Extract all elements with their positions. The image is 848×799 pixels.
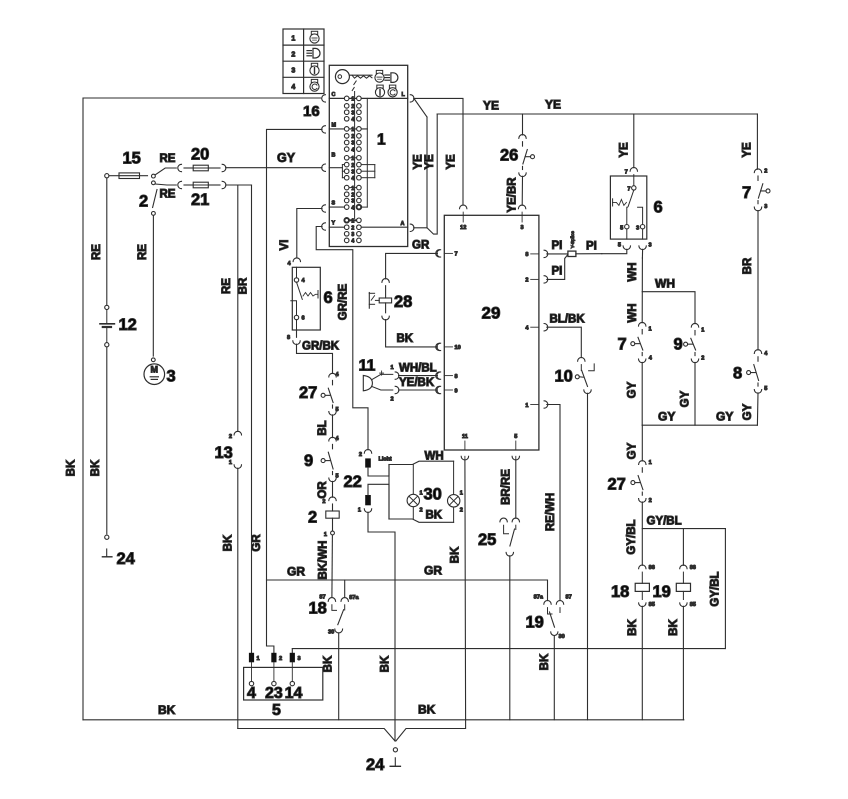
svg-text:2: 2 — [359, 452, 362, 458]
connector arc — [329, 436, 340, 442]
svg-text:GY: GY — [716, 410, 733, 424]
svg-text:28: 28 — [394, 293, 412, 311]
label 16 — [303, 103, 320, 120]
svg-text:30: 30 — [328, 630, 334, 636]
label 9 middle — [674, 336, 683, 354]
svg-text:8: 8 — [455, 374, 458, 380]
wire BK 13 down — [237, 468, 239, 728]
switch 7 middle — [631, 330, 643, 356]
label BK 19-30 — [539, 653, 551, 670]
wire GY/BL down — [641, 502, 643, 565]
svg-text:PI: PI — [586, 241, 597, 253]
wire BK switch10 — [587, 393, 589, 720]
pin 3 of 6 right — [639, 242, 652, 258]
connector arc — [359, 450, 372, 459]
svg-text:RE: RE — [91, 244, 103, 260]
svg-text:2: 2 — [279, 656, 282, 662]
svg-text:BK: BK — [380, 655, 392, 672]
svg-text:4: 4 — [247, 685, 256, 702]
relay contact 18: 30 — [328, 629, 343, 636]
connector arc — [625, 167, 638, 175]
terminal circle — [151, 358, 155, 362]
svg-text:13: 13 — [215, 444, 233, 462]
switch 10 — [575, 358, 594, 394]
svg-text:12: 12 — [119, 316, 137, 334]
wire BK horizontal — [292, 648, 724, 650]
svg-text:GY/BL: GY/BL — [710, 571, 722, 606]
label BK 30 — [323, 655, 335, 672]
wire YE L-A vertical — [426, 117, 428, 228]
svg-text:2: 2 — [322, 499, 325, 505]
label 12 — [119, 316, 137, 334]
svg-text:GR: GR — [412, 240, 430, 252]
svg-text:30: 30 — [559, 634, 565, 640]
svg-text:BR: BR — [742, 257, 754, 274]
svg-text:7: 7 — [625, 169, 628, 175]
ground 24 bottom — [390, 758, 400, 767]
label 22 — [344, 473, 362, 491]
label 6 left — [324, 289, 333, 307]
terminal arcs of key switch — [322, 95, 414, 232]
svg-text:86: 86 — [649, 565, 655, 571]
connector pin 2 — [271, 653, 282, 663]
label YE bus2 — [545, 98, 561, 112]
svg-text:3: 3 — [351, 141, 354, 147]
connector arc — [691, 356, 704, 363]
terminal circle — [105, 305, 109, 309]
headlamps 30 box — [389, 461, 454, 522]
label WH vert1 — [627, 262, 639, 281]
wire YE to switch 6 right — [633, 114, 635, 168]
terminal letters — [332, 92, 406, 227]
svg-text:YE/BR: YE/BR — [507, 177, 519, 213]
svg-text:1: 1 — [257, 656, 260, 662]
svg-text:4: 4 — [351, 239, 354, 245]
wire BK lower bus — [238, 720, 466, 741]
relay contact 19: 30 — [551, 632, 565, 640]
connector pin 3 — [290, 653, 301, 663]
connector arc — [639, 356, 653, 363]
label WH branch — [655, 277, 675, 291]
key switch label 1 — [377, 132, 386, 149]
wire GR/BK — [287, 330, 333, 374]
switch 9 left — [321, 444, 333, 474]
pin 4 right — [525, 324, 547, 332]
label BR vert — [238, 277, 250, 294]
wire BK to pin10 — [386, 320, 441, 351]
label YE right — [742, 142, 754, 158]
svg-text:2: 2 — [525, 278, 528, 284]
capacitor 28 — [369, 286, 391, 313]
wire YE right column — [756, 114, 758, 169]
relay contact 19: 87 — [556, 595, 571, 613]
switch 25 — [500, 518, 520, 556]
svg-text:26: 26 — [500, 147, 518, 165]
svg-text:OR: OR — [317, 481, 329, 499]
pin 5 of 6 right — [602, 242, 631, 253]
label 6 right — [654, 199, 663, 217]
label 2 fuse — [308, 509, 317, 527]
label RE/WH — [545, 493, 557, 531]
svg-text:2: 2 — [351, 163, 354, 169]
svg-text:1: 1 — [701, 328, 704, 334]
svg-text:1: 1 — [649, 460, 652, 466]
svg-text:Y-Splice: Y-Splice — [570, 231, 576, 249]
label GY/BL right — [710, 571, 722, 606]
svg-text:RE/WH: RE/WH — [545, 493, 557, 531]
svg-text:YE: YE — [619, 142, 631, 158]
wire PI pin8 — [547, 253, 568, 255]
switch 26 — [519, 135, 535, 170]
switch contacts group B — [344, 156, 361, 182]
svg-text:2: 2 — [391, 397, 394, 403]
svg-text:4: 4 — [351, 117, 354, 123]
svg-text:GY: GY — [680, 390, 692, 407]
label 24 left — [117, 550, 136, 568]
wire GY bus — [642, 424, 757, 426]
svg-text:11: 11 — [359, 358, 376, 375]
svg-text:87a: 87a — [349, 595, 359, 601]
switch contacts group C — [344, 96, 361, 123]
svg-text:BR: BR — [238, 277, 250, 294]
svg-text:YE: YE — [446, 154, 458, 170]
svg-text:WH: WH — [627, 303, 639, 322]
label BK 13 — [223, 534, 235, 551]
label BK pin11 — [450, 546, 462, 563]
svg-text:B: B — [332, 153, 336, 159]
svg-text:BK: BK — [66, 459, 78, 476]
battery 12 — [100, 310, 114, 343]
svg-text:10: 10 — [455, 345, 461, 351]
svg-text:BK: BK — [158, 703, 176, 717]
label 11 — [359, 358, 376, 375]
relay contact 18: 87a — [341, 595, 360, 610]
wire GY 8 — [756, 393, 759, 425]
label 7 middle — [618, 336, 627, 354]
svg-text:2: 2 — [291, 52, 295, 59]
label BK battery — [90, 459, 102, 476]
svg-text:9: 9 — [455, 388, 458, 394]
connector arc — [639, 322, 652, 332]
outer border wire BK — [83, 98, 321, 720]
label 7 right — [742, 184, 751, 202]
svg-text:BK: BK — [223, 534, 235, 551]
svg-text:GR: GR — [287, 565, 305, 579]
svg-text:30: 30 — [424, 486, 442, 504]
svg-text:1: 1 — [649, 327, 652, 333]
label 25 — [478, 531, 496, 549]
label 13 — [215, 444, 233, 462]
wire GR line — [267, 580, 548, 601]
switch 7 right — [758, 176, 770, 204]
label RE battery — [91, 244, 103, 260]
label VI — [279, 240, 291, 251]
label YE 6right — [619, 142, 631, 158]
relay coil 18 — [635, 565, 655, 608]
ground 24 left — [102, 549, 112, 557]
wire YE L terminal — [414, 98, 463, 205]
svg-text:Licht: Licht — [379, 457, 392, 463]
svg-text:GY/BL: GY/BL — [647, 516, 682, 528]
wire WH/BL — [391, 365, 441, 379]
pin 5 bottom — [512, 434, 519, 460]
wire RE to motor — [152, 216, 154, 357]
svg-text:20: 20 — [191, 146, 209, 164]
switch 9 middle — [684, 331, 696, 356]
connector arc — [691, 323, 704, 333]
label GY 7mid — [627, 381, 639, 398]
relay 18 blade — [338, 610, 344, 625]
label BK lamps — [426, 510, 443, 522]
wire YE/BK — [391, 386, 441, 402]
svg-text:YE: YE — [424, 154, 436, 170]
svg-text:9: 9 — [674, 336, 683, 354]
svg-text:23: 23 — [265, 685, 283, 702]
svg-text:2: 2 — [460, 508, 463, 514]
svg-text:87a: 87a — [534, 595, 544, 601]
svg-text:BK/WH: BK/WH — [318, 541, 330, 580]
label BK/WH — [318, 541, 330, 580]
svg-text:YE/BK: YE/BK — [399, 377, 435, 389]
label 18 coil — [611, 583, 629, 601]
Y-splice — [568, 231, 576, 257]
svg-text:10: 10 — [555, 368, 573, 386]
switch 6 right box — [610, 176, 646, 239]
wire BK 25 down — [509, 556, 511, 720]
wire GY to 27 right — [641, 425, 643, 461]
svg-text:YE: YE — [483, 99, 499, 113]
wire WH from 6 right — [641, 258, 643, 323]
label GY 9mid — [680, 390, 692, 407]
svg-text:WH: WH — [655, 277, 675, 291]
connector block 5 — [244, 662, 323, 700]
svg-text:5: 5 — [336, 407, 339, 413]
svg-text:2: 2 — [351, 225, 354, 231]
terminal circle — [105, 535, 109, 539]
svg-text:2: 2 — [420, 508, 423, 514]
svg-text:BK: BK — [323, 655, 335, 672]
label GR vert — [251, 534, 263, 552]
indicator icons in key switch — [375, 70, 398, 97]
starter switch 2 — [152, 168, 177, 215]
svg-text:RE: RE — [137, 244, 149, 260]
svg-text:BL: BL — [317, 420, 329, 435]
label BL/BK — [550, 314, 586, 326]
label 3 — [167, 368, 176, 386]
svg-text:25: 25 — [478, 531, 496, 549]
svg-text:27: 27 — [608, 476, 626, 494]
terminal circle — [105, 343, 109, 347]
fuse 20 — [178, 164, 226, 171]
svg-text:22: 22 — [344, 473, 362, 491]
pin 8 left — [436, 372, 458, 380]
svg-text:7: 7 — [742, 184, 751, 202]
connector arc — [639, 498, 652, 504]
wire PI to switch 6 right — [576, 253, 602, 255]
fuse 15 — [109, 173, 148, 179]
svg-text:3: 3 — [167, 368, 176, 386]
label 21 — [191, 191, 209, 209]
label GR/BK — [302, 341, 340, 353]
connector arc — [382, 316, 389, 320]
connector arc — [358, 508, 372, 514]
svg-text:5: 5 — [620, 225, 623, 231]
label YE vert1 — [413, 154, 425, 170]
svg-text:3: 3 — [636, 225, 639, 231]
svg-text:3: 3 — [351, 199, 354, 205]
wire BK 19-30 — [553, 636, 555, 720]
label 9 left — [304, 452, 313, 470]
svg-text:3: 3 — [351, 169, 354, 175]
wire YE to switch 26 — [522, 114, 524, 135]
svg-text:PI: PI — [552, 266, 563, 278]
svg-text:1: 1 — [324, 532, 327, 538]
svg-text:2: 2 — [351, 134, 354, 140]
label YE vert2 — [424, 154, 436, 170]
pin 3 top — [518, 205, 525, 231]
contact group B links — [329, 158, 375, 178]
svg-text:1: 1 — [377, 132, 386, 149]
light switch 22 pin 1 — [365, 484, 389, 519]
svg-text:YE: YE — [545, 98, 561, 112]
svg-text:1: 1 — [420, 491, 423, 497]
label 19 — [526, 614, 544, 632]
label WH vert2 — [627, 303, 639, 322]
connector arc — [382, 279, 389, 283]
switch bus (right) — [366, 98, 368, 207]
svg-text:4: 4 — [351, 147, 354, 153]
svg-text:2: 2 — [764, 168, 767, 174]
svg-text:BK: BK — [426, 510, 443, 522]
svg-text:4: 4 — [291, 84, 295, 91]
svg-text:BK: BK — [539, 653, 551, 670]
svg-text:9: 9 — [304, 452, 313, 470]
relay coil 19 — [676, 529, 696, 608]
svg-text:GY: GY — [627, 442, 639, 459]
svg-text:WH: WH — [627, 262, 639, 281]
pin 7 left — [436, 250, 458, 258]
svg-text:29: 29 — [482, 304, 501, 323]
label BR — [742, 257, 754, 274]
label GY/BL vert — [626, 519, 638, 554]
svg-text:1: 1 — [351, 156, 354, 162]
label GY — [277, 151, 296, 165]
wire PI pin2 — [547, 255, 568, 280]
label 26 — [500, 147, 518, 165]
label 2 — [139, 193, 148, 211]
switch contacts group S — [344, 185, 361, 211]
terminal circle — [105, 174, 109, 178]
safety switch 6 left box — [292, 267, 320, 330]
connector arc — [754, 350, 768, 357]
svg-text:1: 1 — [391, 365, 394, 371]
label GR line2 — [424, 564, 442, 578]
label OR — [317, 481, 329, 499]
svg-text:11: 11 — [462, 434, 468, 440]
svg-text:C: C — [332, 92, 336, 98]
svg-text:GR: GR — [424, 564, 442, 578]
wire battery to ground — [106, 347, 108, 534]
svg-text:27: 27 — [299, 384, 317, 402]
svg-text:WH: WH — [425, 451, 444, 463]
svg-text:BK: BK — [90, 459, 102, 476]
switch 27 right — [631, 468, 643, 495]
pin 10 left — [436, 343, 461, 351]
svg-text:RE: RE — [221, 278, 233, 294]
label RE lower — [160, 189, 176, 201]
svg-text:M: M — [151, 365, 159, 375]
wire YE bus — [437, 113, 757, 115]
controller 29 box — [444, 215, 539, 450]
svg-text:5: 5 — [618, 242, 621, 248]
pin 8 right — [525, 250, 547, 258]
svg-text:VI: VI — [279, 240, 291, 251]
wire BL — [332, 415, 334, 438]
svg-text:4: 4 — [351, 205, 354, 211]
label 20 — [191, 146, 209, 164]
lamp right — [448, 491, 463, 514]
svg-text:1: 1 — [358, 508, 361, 514]
wire YE A jog — [427, 114, 437, 234]
wire BK bus — [83, 719, 684, 721]
switch 6 left internals — [291, 267, 318, 330]
wire BK coil19 — [682, 606, 684, 720]
svg-text:BK: BK — [418, 703, 436, 717]
svg-text:2: 2 — [351, 104, 354, 110]
magneto 11 symbol — [363, 371, 393, 391]
svg-text:BL/BK: BL/BK — [550, 314, 586, 326]
label GY bus2 — [716, 410, 733, 424]
svg-text:8: 8 — [525, 252, 528, 258]
label 30 lamps — [424, 486, 442, 504]
wire YE L diagonal — [415, 99, 428, 117]
relay contact 19: 87a — [534, 595, 552, 615]
svg-text:1: 1 — [351, 127, 354, 133]
svg-text:24: 24 — [117, 550, 136, 568]
wire battery top — [106, 178, 108, 305]
wire GR from key M down — [267, 129, 323, 652]
label 15 — [123, 150, 141, 168]
key switch U1 box — [329, 65, 407, 246]
label BR/RE — [501, 469, 513, 505]
connector arc — [329, 407, 339, 415]
svg-text:2: 2 — [351, 192, 354, 198]
svg-text:GR/RE: GR/RE — [338, 283, 350, 320]
wire BR/RE — [515, 460, 517, 519]
svg-text:WH/BL: WH/BL — [399, 363, 437, 375]
svg-text:21: 21 — [191, 191, 209, 209]
switch 27 left — [321, 380, 333, 408]
wire BK pin11 down — [464, 460, 467, 720]
key icon — [335, 70, 372, 91]
label BL — [317, 420, 329, 435]
svg-text:2: 2 — [649, 498, 652, 504]
wire fuse21 out — [226, 184, 252, 186]
motor 3 — [144, 364, 165, 385]
wire BR down to pin1 — [251, 185, 253, 653]
label 23 — [265, 685, 283, 702]
label 19 coil — [653, 583, 671, 601]
wire GR/RE key Y to light switch — [316, 227, 368, 450]
label BK 22 — [380, 655, 392, 672]
ground terminal circle — [393, 748, 397, 752]
wire GR controller pin7 — [386, 250, 441, 279]
label 27 left — [299, 384, 317, 402]
label GY bus1 — [658, 410, 675, 424]
wire RE fuse21 down — [237, 185, 239, 431]
svg-text:19: 19 — [653, 583, 671, 601]
wire BL/BK — [547, 327, 582, 357]
